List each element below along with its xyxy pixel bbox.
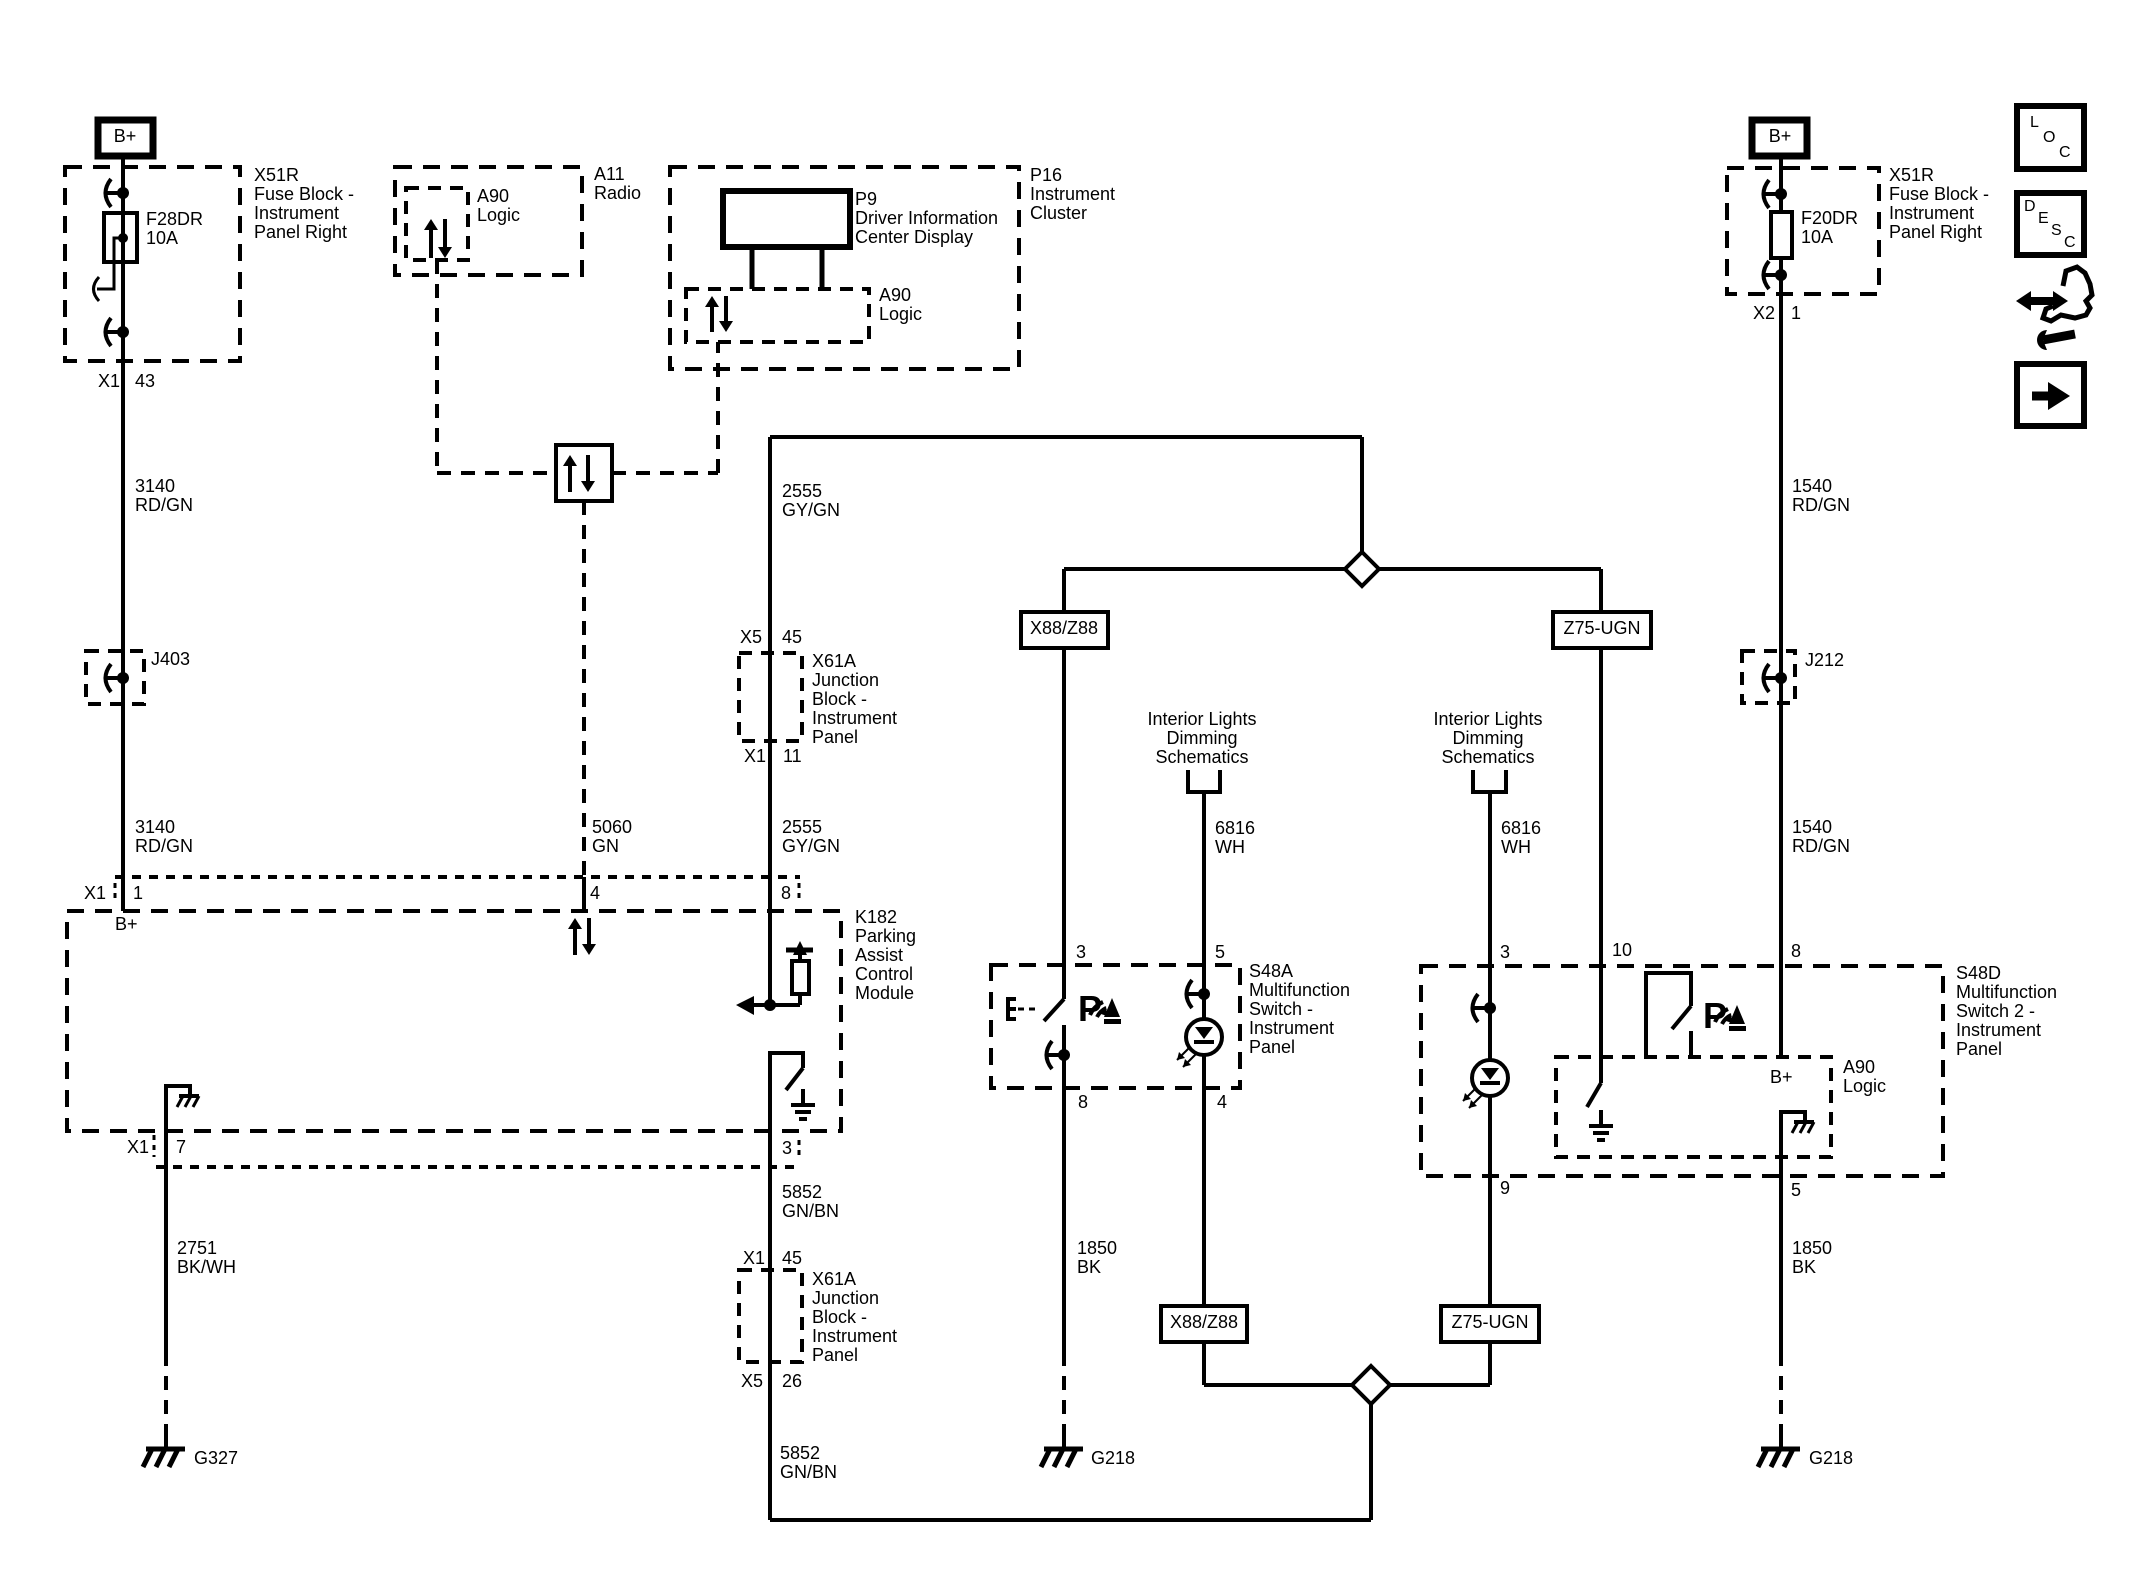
svg-text:S48A: S48A <box>1249 961 1293 981</box>
svg-text:8: 8 <box>1078 1092 1088 1112</box>
svg-text:Panel Right: Panel Right <box>1889 222 1982 242</box>
B+ supply tab in S48D A90 <box>1781 1112 1805 1124</box>
svg-text:6816: 6816 <box>1501 818 1541 838</box>
svg-text:Radio: Radio <box>594 183 641 203</box>
dashed wire 5060 GN translator down to K182 pin 4 <box>582 501 586 877</box>
svg-text:8: 8 <box>1791 941 1801 961</box>
svg-text:GN: GN <box>592 836 619 856</box>
wire to fuse F20DR <box>1779 194 1783 212</box>
wire S48D pin 8 to A90 logic <box>1779 966 1783 1057</box>
logic block A90 inside cluster <box>686 289 869 342</box>
dashed data wire from radio A90 down <box>435 260 439 473</box>
svg-text:Instrument: Instrument <box>254 203 339 223</box>
svg-text:3: 3 <box>1076 942 1086 962</box>
svg-text:Center Display: Center Display <box>855 227 973 247</box>
svg-text:X1: X1 <box>127 1137 149 1157</box>
svg-text:Module: Module <box>855 983 914 1003</box>
svg-text:1850: 1850 <box>1077 1238 1117 1258</box>
svg-text:5852: 5852 <box>782 1182 822 1202</box>
connector pin at S48D pin 3 branch <box>1471 1006 1490 1010</box>
svg-text:Interior Lights: Interior Lights <box>1433 709 1542 729</box>
connector pin in fuse block (bottom) <box>104 330 123 334</box>
svg-text:X1: X1 <box>98 371 120 391</box>
wire Z75-UGN lower to splice <box>1488 1342 1492 1385</box>
svg-text:Multifunction: Multifunction <box>1956 982 2057 1002</box>
svg-text:Panel: Panel <box>1249 1037 1295 1057</box>
inline connector J212 <box>1742 651 1795 703</box>
svg-text:3: 3 <box>782 1138 792 1158</box>
serial data arrows in cluster A90 <box>710 306 714 332</box>
wire fuse to lower pin <box>121 262 125 332</box>
wire pin 7 inside module <box>164 1098 168 1131</box>
svg-text:9: 9 <box>1500 1178 1510 1198</box>
svg-text:6816: 6816 <box>1215 818 1255 838</box>
svg-text:11: 11 <box>783 746 802 766</box>
svg-text:O: O <box>2043 129 2055 146</box>
switch to ground at K182 pin 3 <box>770 1053 803 1131</box>
wire 1850 BK (left) <box>1062 1088 1066 1352</box>
svg-text:RD/GN: RD/GN <box>1792 836 1850 856</box>
wire 1540 RD/GN lower <box>1779 877 1783 966</box>
svg-text:45: 45 <box>782 1248 802 1268</box>
wire from S48A pin 4 down to X88/Z88 bottom box <box>1202 1088 1206 1306</box>
wire B+ to fuse block pin <box>121 156 125 193</box>
svg-text:C: C <box>2059 144 2071 161</box>
LED indicator in S48A <box>1202 965 1206 1019</box>
svg-text:C: C <box>2064 234 2076 251</box>
icon box forward arrow <box>2017 364 2084 426</box>
resistor (pull-up) in K182 <box>770 1003 800 1007</box>
svg-text:G218: G218 <box>1809 1448 1853 1468</box>
LED indicator in S48D <box>1488 966 1492 1060</box>
ground G327 <box>164 1437 168 1449</box>
ground G218 (right) <box>1779 1437 1783 1449</box>
svg-text:3140: 3140 <box>135 476 175 496</box>
svg-text:Dimming: Dimming <box>1452 728 1523 748</box>
wire B+ to fuse block (right) <box>1779 156 1783 194</box>
switch S48A dashed box <box>991 965 1240 1088</box>
svg-text:GY/GN: GY/GN <box>782 836 840 856</box>
svg-text:X2: X2 <box>1753 303 1775 323</box>
svg-text:Switch 2 -: Switch 2 - <box>1956 1001 2035 1021</box>
pin 8 wire into module with input arrow and pull-up resistor <box>768 911 772 1005</box>
svg-text:Interior Lights: Interior Lights <box>1147 709 1256 729</box>
svg-text:B+: B+ <box>1769 126 1792 146</box>
svg-text:P16: P16 <box>1030 165 1062 185</box>
svg-text:5060: 5060 <box>592 817 632 837</box>
serial data translator box <box>556 445 612 501</box>
dashed data wire to translator <box>437 471 556 475</box>
svg-text:Switch -: Switch - <box>1249 999 1313 1019</box>
icon vehicle with double arrow <box>2043 267 2092 321</box>
splice diamond (top) <box>1345 552 1379 586</box>
wire from X88/Z88 top box down to S48A pin 3 <box>1062 648 1066 965</box>
fuse block X51R left dashed box <box>65 167 240 361</box>
module K182 dashed box <box>67 911 841 1131</box>
svg-text:5852: 5852 <box>780 1443 820 1463</box>
net label box X88/Z88 (bottom) <box>1161 1306 1247 1342</box>
svg-text:X1: X1 <box>84 883 106 903</box>
svg-text:Driver Information: Driver Information <box>855 208 998 228</box>
svg-text:Instrument: Instrument <box>1030 184 1115 204</box>
wire 1850 BK (right) <box>1779 1176 1783 1352</box>
svg-text:B+: B+ <box>1770 1067 1793 1087</box>
dashed ground lead (S48A) <box>1062 1352 1066 1437</box>
svg-text:Panel: Panel <box>1956 1039 2002 1059</box>
svg-text:P: P <box>1078 988 1102 1029</box>
svg-text:5: 5 <box>1791 1180 1801 1200</box>
svg-text:Junction: Junction <box>812 1288 879 1308</box>
wire 3140 RD/GN upper segment <box>121 332 125 911</box>
svg-text:X61A: X61A <box>812 1269 856 1289</box>
svg-text:GN/BN: GN/BN <box>782 1201 839 1221</box>
serial data arrows below pin 4 <box>573 928 577 955</box>
svg-text:10A: 10A <box>1801 227 1833 247</box>
svg-text:Instrument: Instrument <box>1249 1018 1334 1038</box>
fuse block X51R right dashed box <box>1727 168 1879 294</box>
svg-text:E: E <box>2038 210 2049 227</box>
svg-text:1: 1 <box>133 883 143 903</box>
svg-text:Instrument: Instrument <box>812 1326 897 1346</box>
svg-text:1850: 1850 <box>1792 1238 1832 1258</box>
svg-text:GY/GN: GY/GN <box>782 500 840 520</box>
icon box DESC <box>2017 193 2084 255</box>
switch S48D dashed box <box>1421 966 1943 1176</box>
svg-text:RD/GN: RD/GN <box>135 495 193 515</box>
svg-text:Logic: Logic <box>477 205 520 225</box>
logic block A90 inside S48D <box>1556 1057 1831 1157</box>
svg-text:G218: G218 <box>1091 1448 1135 1468</box>
svg-text:J212: J212 <box>1805 650 1844 670</box>
svg-text:Block -: Block - <box>812 689 867 709</box>
svg-text:K182: K182 <box>855 907 897 927</box>
svg-text:4: 4 <box>590 883 600 903</box>
svg-text:Instrument: Instrument <box>812 708 897 728</box>
svg-text:Logic: Logic <box>1843 1076 1886 1096</box>
svg-text:RD/GN: RD/GN <box>135 836 193 856</box>
svg-text:B+: B+ <box>115 914 138 934</box>
svg-text:Control: Control <box>855 964 913 984</box>
svg-text:Z75-UGN: Z75-UGN <box>1563 618 1640 638</box>
svg-text:3140: 3140 <box>135 817 175 837</box>
wire down to splice diamond <box>1360 437 1364 553</box>
wire to fuse F28DR <box>121 193 125 213</box>
wire X88/Z88 lower to splice <box>1202 1342 1206 1385</box>
svg-text:GN/BN: GN/BN <box>780 1462 837 1482</box>
svg-text:F20DR: F20DR <box>1801 208 1858 228</box>
svg-text:Junction: Junction <box>812 670 879 690</box>
svg-text:X1: X1 <box>743 1248 765 1268</box>
svg-text:S: S <box>2051 222 2062 239</box>
connector pin at S48A pin 5 branch <box>1185 992 1204 996</box>
svg-text:1: 1 <box>1791 303 1801 323</box>
wire splice to Z75-UGN branch <box>1379 567 1601 571</box>
svg-text:X88/Z88: X88/Z88 <box>1170 1312 1238 1332</box>
wire splice to X88/Z88 branch <box>1064 567 1345 571</box>
svg-text:2751: 2751 <box>177 1238 217 1258</box>
svg-text:G327: G327 <box>194 1448 238 1468</box>
module P16 Instrument Cluster dashed box <box>670 167 1019 369</box>
serial data arrows in radio A90 <box>429 229 433 258</box>
svg-text:X5: X5 <box>741 1371 763 1391</box>
svg-text:Block -: Block - <box>812 1307 867 1327</box>
svg-text:Z75-UGN: Z75-UGN <box>1451 1312 1528 1332</box>
dashed ground lead (right) <box>1779 1352 1783 1437</box>
inline connector J403 <box>86 651 144 704</box>
svg-text:1540: 1540 <box>1792 476 1832 496</box>
svg-text:X5: X5 <box>740 627 762 647</box>
svg-text:A11: A11 <box>594 164 625 184</box>
svg-text:P9: P9 <box>855 189 877 209</box>
svg-text:Schematics: Schematics <box>1441 747 1534 767</box>
svg-text:Parking: Parking <box>855 926 916 946</box>
icon wrench <box>2043 334 2075 340</box>
svg-text:2555: 2555 <box>782 817 822 837</box>
wire 6816 WH (left) <box>1202 792 1206 965</box>
svg-text:B+: B+ <box>114 126 137 146</box>
svg-text:A90: A90 <box>477 186 509 206</box>
svg-text:Panel Right: Panel Right <box>254 222 347 242</box>
svg-text:Multifunction: Multifunction <box>1249 980 1350 1000</box>
icon box LOC <box>2017 106 2084 169</box>
svg-text:X51R: X51R <box>1889 165 1934 185</box>
svg-text:1540: 1540 <box>1792 817 1832 837</box>
svg-text:S48D: S48D <box>1956 963 2001 983</box>
svg-text:BK: BK <box>1077 1257 1101 1277</box>
svg-text:BK/WH: BK/WH <box>177 1257 236 1277</box>
svg-text:RD/GN: RD/GN <box>1792 495 1850 515</box>
svg-text:Fuse Block -: Fuse Block - <box>1889 184 1989 204</box>
junction block X61A upper dashed box <box>739 653 802 741</box>
connector pin line X1 (top) of K182 <box>115 875 800 879</box>
power terminal B+ (right) <box>1752 120 1807 156</box>
svg-text:Panel: Panel <box>812 1345 858 1365</box>
svg-text:43: 43 <box>135 371 155 391</box>
wire from S48D pin 9 down to Z75-UGN bottom box <box>1488 1176 1492 1306</box>
svg-text:8: 8 <box>781 883 791 903</box>
svg-text:26: 26 <box>782 1371 802 1391</box>
wire 1540 RD/GN upper <box>1779 275 1783 877</box>
svg-text:Logic: Logic <box>879 304 922 324</box>
wire 2555 GY/GN horizontal top <box>770 435 1362 439</box>
svg-text:10A: 10A <box>146 228 178 248</box>
logic block A90 inside radio <box>406 188 468 260</box>
ground G218 (left) <box>1062 1437 1066 1449</box>
wire 5852 GN/BN to bottom bus <box>768 1362 772 1520</box>
connector pin in right fuse block (bottom) <box>1762 273 1781 277</box>
junction block X61A lower dashed box <box>739 1270 802 1362</box>
svg-text:Instrument: Instrument <box>1956 1020 2041 1040</box>
display P9 Driver Information Center Display <box>723 191 850 247</box>
wire 2555 GY/GN vertical from K182 pin 8 <box>768 437 772 911</box>
svg-text:Instrument: Instrument <box>1889 203 1974 223</box>
svg-text:X61A: X61A <box>812 651 856 671</box>
svg-text:X88/Z88: X88/Z88 <box>1030 618 1098 638</box>
wire P9 left leg <box>750 247 755 289</box>
connector pin below switch (S48A) <box>1045 1053 1064 1057</box>
dashed ground lead left <box>164 1352 168 1437</box>
wire 2751 BK/WH <box>164 1131 168 1352</box>
wire 5852 GN/BN from K182 pin 3 <box>768 1131 772 1362</box>
svg-text:WH: WH <box>1215 837 1245 857</box>
fuse F28DR 10A <box>104 213 137 262</box>
svg-text:D: D <box>2024 198 2036 215</box>
wire from Z75-UGN top box down to S48D pin 10 <box>1599 648 1603 966</box>
svg-text:WH: WH <box>1501 837 1531 857</box>
svg-text:L: L <box>2030 114 2039 131</box>
svg-text:Fuse Block -: Fuse Block - <box>254 184 354 204</box>
svg-text:Assist: Assist <box>855 945 903 965</box>
fuse F20DR 10A <box>1771 212 1792 258</box>
svg-text:X1: X1 <box>744 746 766 766</box>
svg-text:7: 7 <box>176 1137 186 1157</box>
net label box Z75-UGN (bottom) <box>1441 1306 1539 1342</box>
svg-text:3: 3 <box>1500 942 1510 962</box>
svg-text:J403: J403 <box>151 649 190 669</box>
splice diamond (bottom) <box>1352 1366 1390 1404</box>
svg-text:Dimming: Dimming <box>1166 728 1237 748</box>
svg-text:Schematics: Schematics <box>1155 747 1248 767</box>
connector pin in right fuse block (top) <box>1762 192 1781 196</box>
module A11 Radio dashed box <box>395 167 582 275</box>
ground tab at K182 pin 7 <box>166 1086 190 1098</box>
svg-text:P: P <box>1703 995 1727 1036</box>
bottom bus wire <box>770 1518 1371 1522</box>
connector pin in fuse block (top) <box>104 191 123 195</box>
svg-text:A90: A90 <box>879 285 911 305</box>
park switch in S48D <box>1646 973 1691 1057</box>
wire 6816 WH (right) <box>1488 792 1492 966</box>
dashed data wire translator to cluster A90 <box>612 471 718 475</box>
wire fuse to lower pin (right) <box>1779 258 1783 275</box>
svg-text:4: 4 <box>1217 1092 1227 1112</box>
svg-text:2555: 2555 <box>782 481 822 501</box>
park assist switch in S48A <box>1062 965 1066 999</box>
svg-text:Panel: Panel <box>812 727 858 747</box>
svg-text:5: 5 <box>1215 942 1225 962</box>
connector pin line X1 (bottom) of K182 <box>156 1165 800 1169</box>
net label box X88/Z88 (top) <box>1021 612 1108 648</box>
power terminal B+ (left) <box>98 120 153 156</box>
wire B+ tab to pin 5 <box>1779 1124 1783 1176</box>
svg-text:F28DR: F28DR <box>146 209 203 229</box>
svg-text:A90: A90 <box>1843 1057 1875 1077</box>
dimmer switch to ground in S48D <box>1599 966 1603 1083</box>
svg-text:Cluster: Cluster <box>1030 203 1087 223</box>
svg-text:X51R: X51R <box>254 165 299 185</box>
svg-text:BK: BK <box>1792 1257 1816 1277</box>
svg-text:45: 45 <box>782 627 802 647</box>
svg-text:10: 10 <box>1612 940 1632 960</box>
wire P9 right leg <box>820 247 825 289</box>
net label box Z75-UGN (top) <box>1553 612 1651 648</box>
